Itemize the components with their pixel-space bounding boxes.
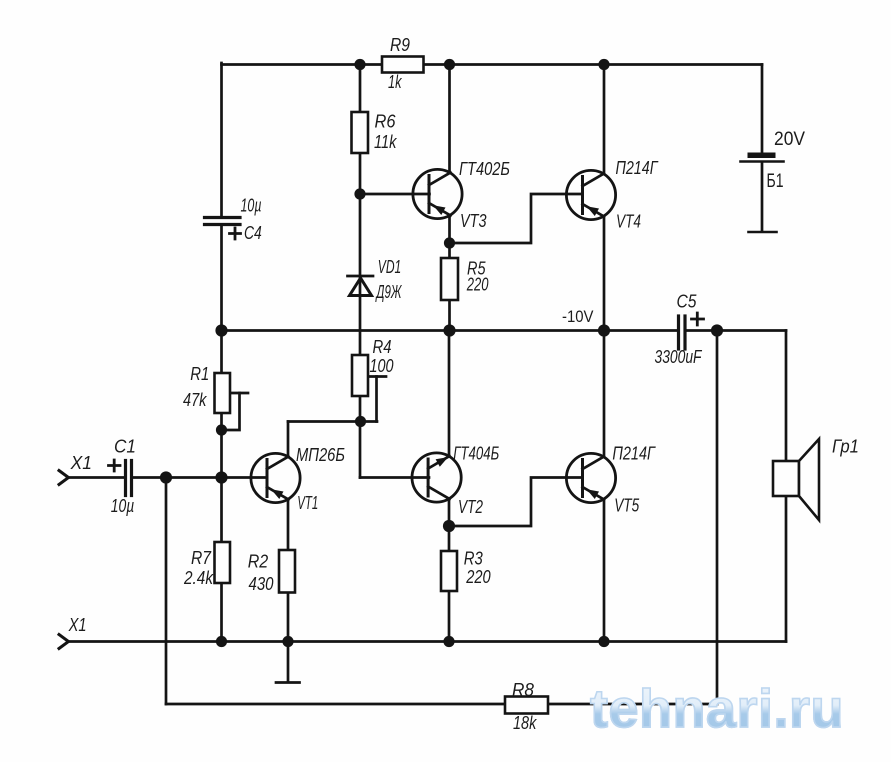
label plus C1: [109, 460, 121, 471]
wire R6/VD1/R4 column: [359, 65, 362, 478]
junction top VT4: [598, 59, 609, 70]
wire VT2 base: [360, 476, 429, 479]
wire battery drop top: [761, 65, 764, 154]
wire mid rail right of C5: [687, 329, 787, 332]
junction bottom R3: [443, 636, 454, 647]
junction bottom VT5: [598, 636, 609, 647]
junction R4 bottom: [355, 416, 366, 427]
svg-text:VT4: VT4: [616, 212, 641, 232]
ground: [287, 642, 290, 683]
resistor R1 body: [215, 373, 231, 413]
svg-text:2.4k: 2.4k: [183, 568, 214, 588]
svg-text:220: 220: [465, 567, 490, 587]
svg-text:R3: R3: [464, 549, 483, 569]
svg-text:R7: R7: [191, 548, 212, 568]
svg-text:20V: 20V: [774, 129, 805, 150]
junction top R6: [354, 59, 365, 70]
svg-text:C1: C1: [114, 437, 136, 457]
wire C1 to VT1 base: [133, 476, 267, 479]
diode VD1: [348, 276, 374, 296]
svg-text:11k: 11k: [374, 132, 397, 152]
svg-text:220: 220: [466, 275, 488, 295]
wire R1 tap bracket: [230, 392, 248, 395]
junction input node: [160, 471, 172, 483]
wire speaker column: [785, 331, 788, 642]
junction R1 input: [215, 471, 227, 483]
svg-text:R2: R2: [248, 552, 269, 572]
svg-text:Б1: Б1: [767, 171, 784, 192]
svg-text:VT3: VT3: [460, 211, 487, 231]
transistor VT1: [251, 453, 300, 502]
wire VT2 collector down through R3: [448, 500, 451, 642]
resistor R6 body: [352, 112, 369, 153]
battery B1: [741, 153, 784, 233]
svg-text:R9: R9: [390, 35, 410, 55]
wire VT3 base: [360, 193, 430, 196]
svg-text:47k: 47k: [183, 390, 207, 410]
wire R4 tap bracket: [368, 375, 386, 378]
junction mid rail VT4: [598, 324, 610, 336]
svg-text:430: 430: [249, 574, 274, 594]
wire VT4 collector: [603, 65, 606, 175]
wire input to C1: [67, 476, 124, 479]
svg-text:Гр1: Гр1: [832, 437, 859, 457]
junction VT3 emitter: [444, 237, 455, 248]
transistor VT3: [413, 169, 462, 218]
junction VT3 base: [354, 188, 365, 199]
resistor R5 body: [441, 258, 458, 300]
svg-text:X1: X1: [68, 615, 87, 635]
wire C5 node down to R8: [716, 331, 719, 705]
svg-text:П214Г: П214Г: [612, 444, 655, 464]
resistor R8 body: [505, 697, 548, 714]
junction R1 bottom: [216, 424, 227, 435]
svg-text:10µ: 10µ: [111, 496, 135, 516]
wire feedback riser to input node: [165, 478, 168, 705]
svg-text:VT5: VT5: [614, 496, 640, 516]
junction mid rail R5: [443, 324, 455, 336]
wire bottom rail: [68, 640, 786, 643]
connector X1 bottom chevron: [59, 635, 69, 649]
resistor R3 body: [441, 551, 457, 591]
wire top rail: [222, 63, 763, 66]
wire VT3 emitter to R5: [448, 215, 451, 331]
label plus C4: [230, 228, 241, 239]
svg-text:R4: R4: [373, 337, 392, 357]
svg-text:C5: C5: [677, 292, 698, 312]
wire VT4 emitter: [603, 216, 606, 331]
label plus C5: [692, 313, 704, 325]
svg-text:П214Г: П214Г: [616, 158, 659, 178]
wire R8 horizontal: [166, 703, 717, 706]
wire mid rail left of C5: [222, 329, 678, 332]
junction mid rail C4: [215, 324, 227, 336]
svg-text:3300uF: 3300uF: [655, 347, 703, 367]
wire VT5 emitter down: [603, 500, 606, 642]
svg-text:Д9Ж: Д9Ж: [375, 282, 402, 302]
junction VT2 collector: [443, 520, 455, 532]
junction bottom R2: [282, 636, 293, 647]
junction bottom R7: [216, 636, 227, 647]
svg-text:ГТ404Б: ГТ404Б: [453, 444, 499, 464]
svg-text:100: 100: [370, 356, 394, 376]
svg-text:1k: 1k: [388, 72, 402, 92]
svg-text:R6: R6: [375, 112, 397, 132]
transistor VT5: [566, 453, 615, 502]
junction mid rail C5: [711, 324, 723, 336]
watermark tehnari.ru: [590, 678, 860, 740]
svg-text:X1: X1: [70, 453, 92, 473]
capacitor C1 plates: [126, 461, 132, 496]
wire C4/R1 column: [220, 63, 223, 216]
transistor VT2: [412, 453, 461, 502]
svg-text:ГТ402Б: ГТ402Б: [459, 159, 510, 179]
wire VT1 emitter down through R2: [287, 499, 290, 642]
wire battery drop bottom: [761, 162, 764, 232]
svg-text:МП26Б: МП26Б: [296, 445, 345, 465]
svg-text:C4: C4: [244, 223, 262, 243]
speaker Gr1: [773, 439, 819, 520]
resistor R7 body: [215, 542, 231, 583]
svg-text:R1: R1: [190, 364, 209, 384]
svg-text:10µ: 10µ: [241, 196, 262, 216]
svg-text:VT1: VT1: [297, 493, 318, 513]
svg-text:18k: 18k: [513, 713, 537, 733]
connector X1 top chevron: [59, 471, 69, 485]
resistor R2 body: [279, 550, 295, 593]
resistor R4 body: [352, 355, 368, 396]
capacitor C5 plates: [679, 316, 686, 349]
svg-text:-10V: -10V: [562, 307, 594, 326]
wire VT1 collector riser: [287, 422, 290, 458]
wire VT1 collector to R4 node: [288, 420, 377, 423]
svg-text:R8: R8: [512, 680, 534, 700]
svg-text:VT2: VT2: [458, 497, 483, 517]
junction top VT3: [444, 59, 455, 70]
wire VT2 collector to VT5 base: [449, 478, 583, 527]
wire VT5 collector up: [603, 331, 606, 458]
svg-text:VD1: VD1: [378, 257, 401, 277]
transistor VT4: [566, 170, 615, 219]
resistor R9 body: [382, 57, 424, 73]
wire VT2 emitter up: [448, 331, 451, 457]
capacitor C4 plates: [205, 218, 241, 225]
wire VT3 emitter to VT4 base: [450, 194, 583, 243]
wire VT3 collector: [448, 65, 451, 174]
